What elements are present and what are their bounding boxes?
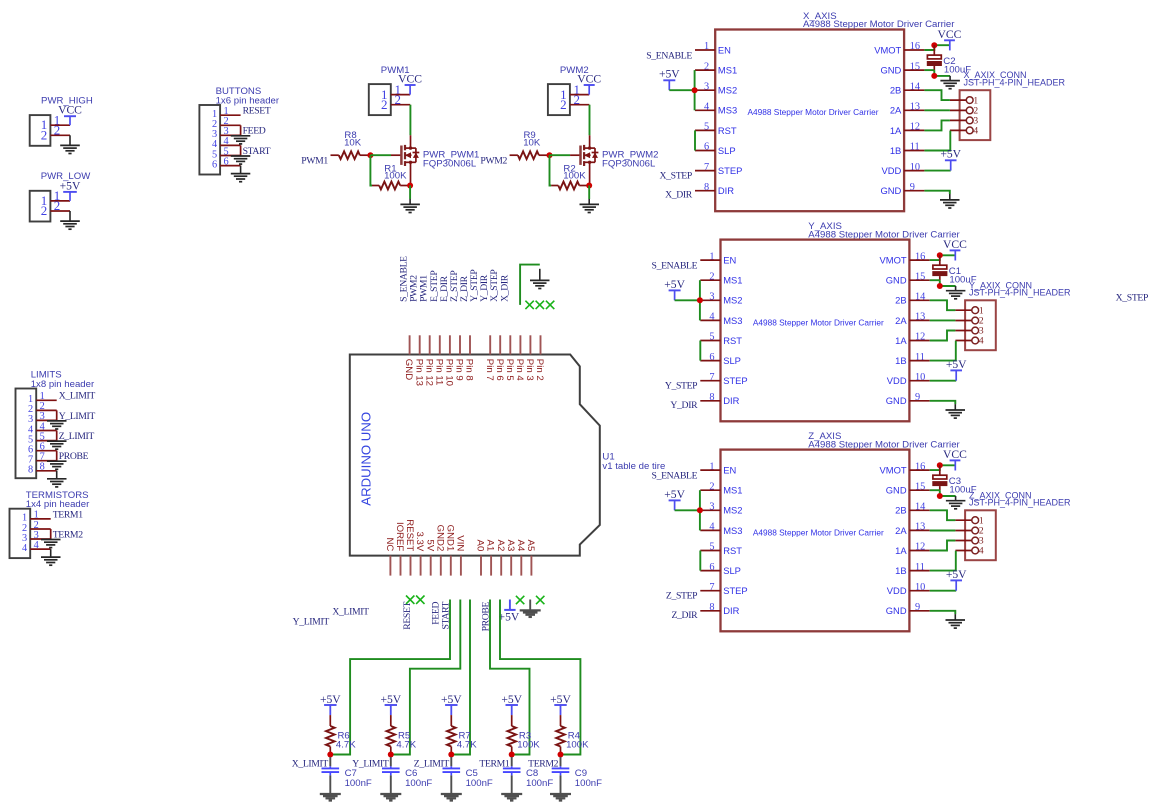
svg-text:1B: 1B [890, 145, 901, 156]
svg-text:JST-PH_4-PIN_HEADER: JST-PH_4-PIN_HEADER [969, 498, 1071, 508]
Arduino pin GND1 (bottom) [444, 525, 455, 576]
svg-text:MS3: MS3 [723, 315, 742, 326]
power +5V [60, 179, 81, 201]
svg-text:3: 3 [979, 327, 984, 337]
ground [946, 410, 966, 418]
wire to ground [56, 471, 58, 478]
wire 1B to conn pin4 [930, 341, 956, 361]
svg-text:4.7K: 4.7K [336, 739, 356, 750]
pin 8 of LIMITS [28, 462, 57, 476]
svg-text:STEP: STEP [718, 165, 743, 176]
wire GND pin9 to ground [924, 191, 949, 194]
power +5V [664, 488, 685, 511]
svg-text:2: 2 [41, 203, 48, 218]
wire 2B to conn pin1 [930, 510, 956, 520]
svg-text:+5V: +5V [320, 693, 341, 706]
capacitor C3 100uF [932, 465, 976, 495]
pin 15 GND [880, 61, 924, 75]
pin 4 MS3 [700, 522, 742, 536]
pin 15 GND [886, 271, 930, 285]
svg-text:EN: EN [718, 44, 731, 55]
power +5V for TERM2 [550, 693, 571, 715]
pin 6 SLP [700, 352, 741, 366]
power +5V [940, 148, 961, 171]
junction cap gnd node [937, 493, 943, 499]
svg-text:SLP: SLP [718, 145, 736, 156]
svg-text:X_DIR: X_DIR [665, 190, 693, 201]
ground [41, 540, 61, 548]
ground [946, 291, 966, 299]
Arduino pin GND2 (bottom) [434, 525, 445, 576]
wire cap to ground [560, 775, 562, 793]
wire GND pin9 to ground [930, 401, 956, 404]
svg-text:+5V: +5V [60, 179, 81, 192]
svg-text:4: 4 [22, 543, 27, 554]
svg-text:A3: A3 [505, 540, 516, 552]
svg-text:STEP: STEP [723, 375, 748, 386]
ground [940, 81, 960, 89]
svg-text:2: 2 [381, 97, 388, 112]
pin 11 1B [895, 352, 930, 366]
wire 1B to conn pin4 [930, 551, 956, 571]
pin 7 of LIMITS [28, 452, 57, 466]
svg-text:MS2: MS2 [723, 505, 742, 516]
pin 1 of Z_AXIX_CONN [955, 516, 984, 526]
Arduino pin Pin 3 (top) [524, 335, 535, 380]
svg-text:VCC: VCC [398, 72, 422, 85]
pin 11 1B [890, 142, 925, 156]
svg-text:Pin 12: Pin 12 [423, 359, 434, 386]
capacitor C6 100nF [382, 757, 432, 789]
svg-text:GND: GND [880, 65, 901, 76]
pin 4 of TERMISTORS [22, 540, 51, 554]
Arduino U1 body [350, 355, 666, 556]
pin 3 of Y_AXIX_CONN [955, 327, 984, 337]
wire +5V to MS pins [675, 490, 700, 530]
svg-text:5V: 5V [424, 540, 435, 552]
wire VMOT to VCC [930, 465, 956, 470]
pin 14 2B [895, 292, 930, 306]
svg-text:Y_LIMIT: Y_LIMIT [293, 617, 330, 628]
ground [47, 421, 67, 429]
resistor R5 4.7K [387, 715, 417, 754]
svg-text:Y_DIR: Y_DIR [670, 400, 698, 411]
Arduino pin A5 (bottom) [525, 540, 536, 576]
svg-text:VCC: VCC [943, 238, 967, 251]
svg-text:+5V: +5V [940, 148, 961, 161]
svg-text:A1: A1 [485, 540, 496, 552]
ground [320, 794, 341, 801]
wire RST to SLP [699, 551, 701, 571]
Arduino pin IOREF (bottom) [394, 522, 405, 576]
pin 10 VDD [887, 372, 930, 386]
svg-text:VCC: VCC [58, 104, 82, 117]
svg-text:3: 3 [979, 537, 984, 547]
svg-text:A5: A5 [525, 540, 536, 552]
svg-text:VCC: VCC [943, 448, 967, 461]
pin 4 of BUTTONS [212, 136, 241, 150]
svg-text:Z_DIR: Z_DIR [671, 610, 698, 621]
ground [231, 136, 251, 144]
pin 4 MS3 [695, 102, 737, 116]
junction X_LIMIT [327, 752, 333, 758]
wire to ground [240, 145, 242, 155]
wire 2A to conn pin2 [930, 530, 956, 532]
svg-text:MS1: MS1 [723, 485, 742, 496]
Arduino pin Pin 13 (top) [413, 335, 424, 386]
pin 3 MS2 [700, 292, 742, 306]
pin 1 EN [700, 461, 736, 475]
svg-text:+5V: +5V [499, 611, 520, 624]
pin 6 of BUTTONS [212, 156, 241, 170]
svg-text:+5V: +5V [550, 693, 571, 706]
svg-text:S_ENABLE: S_ENABLE [646, 51, 692, 62]
wire +5V to MS pins [675, 280, 700, 320]
wire RST to SLP [694, 130, 696, 150]
connector X_AXIX_CONN JST-PH_4-PIN_HEADER [960, 70, 1066, 140]
svg-text:Y_STEP: Y_STEP [665, 381, 697, 392]
pin 3 of LIMITS [28, 411, 57, 425]
ground [530, 280, 550, 288]
pin 4 MS3 [700, 312, 742, 326]
svg-text:Pin 4: Pin 4 [514, 359, 525, 382]
Arduino pin A2 (bottom) [495, 540, 506, 576]
A4988 driver block Y_AXIS [721, 221, 961, 421]
ground [41, 557, 61, 565]
pin 9 GND [886, 392, 930, 406]
svg-text:IOREF: IOREF [394, 522, 405, 551]
svg-text:Pin 7: Pin 7 [484, 359, 495, 381]
junction TERM2 [558, 752, 564, 758]
pin 1 of LIMITS [28, 391, 57, 405]
svg-text:+5V: +5V [441, 693, 462, 706]
svg-text:RST: RST [723, 545, 742, 556]
pin 8 DIR [700, 392, 739, 406]
pin 6 of LIMITS [28, 442, 57, 456]
svg-text:1: 1 [979, 306, 984, 316]
svg-text:2B: 2B [895, 295, 906, 306]
svg-text:VDD: VDD [887, 375, 907, 386]
ground [520, 610, 541, 617]
A4988 driver block X_AXIS [715, 11, 955, 211]
wire to ground [56, 431, 58, 441]
wire 1A to conn pin3 [930, 331, 956, 341]
svg-text:GND1: GND1 [444, 525, 455, 552]
Arduino pin Pin 8 (top) [464, 335, 475, 380]
wire 2A to conn pin2 [930, 319, 956, 321]
Arduino pin Pin 10 (top) [444, 335, 455, 386]
connector PWR_HIGH [30, 95, 93, 146]
junction gate node PWM1 [367, 152, 373, 158]
svg-text:GND: GND [403, 359, 414, 380]
svg-text:MS1: MS1 [723, 275, 742, 286]
pin 1 of PWR_LOW [41, 188, 70, 208]
svg-text:2A: 2A [895, 525, 907, 536]
svg-text:2A: 2A [895, 315, 907, 326]
svg-text:2: 2 [560, 97, 567, 112]
wire to ground [50, 529, 52, 539]
svg-text:S_ENABLE: S_ENABLE [652, 261, 698, 272]
pin 1 EN [700, 251, 736, 265]
pin 2 MS1 [695, 61, 737, 75]
svg-text:GND: GND [886, 275, 907, 286]
pin 5 RST [700, 542, 742, 556]
wire to Z_LIMIT column [453, 600, 470, 755]
no-connect flag [536, 596, 544, 604]
wire to ground [56, 410, 58, 420]
junction Z_LIMIT [448, 752, 454, 758]
capacitor C2 100uF [927, 45, 971, 75]
pin 11 1B [895, 562, 930, 576]
svg-text:VDD: VDD [887, 585, 907, 596]
svg-text:1: 1 [979, 516, 984, 526]
svg-text:RST: RST [723, 335, 742, 346]
pin 16 VMOT [880, 461, 930, 475]
power +5V for Y_LIMIT [380, 693, 401, 715]
ground [47, 441, 67, 449]
svg-text:MS1: MS1 [718, 65, 737, 76]
pin 1 of X_AXIX_CONN [950, 96, 979, 106]
wire 2B to conn pin1 [924, 90, 950, 100]
wire to ground (top of arduino) [520, 265, 540, 305]
svg-text:JST-PH_4-PIN_HEADER: JST-PH_4-PIN_HEADER [964, 77, 1066, 87]
wire cap to ground [390, 775, 392, 793]
svg-text:PWM2: PWM2 [480, 155, 507, 166]
pin 7 STEP [700, 582, 747, 596]
svg-text:100nF: 100nF [466, 778, 493, 789]
power +5V (inverted) [499, 600, 520, 624]
svg-text:MS2: MS2 [718, 85, 737, 96]
Arduino pin A0 (bottom) [475, 540, 486, 576]
capacitor C9 100nF [552, 757, 602, 789]
ground [550, 794, 571, 801]
svg-text:Pin 13: Pin 13 [413, 359, 424, 386]
connector BUTTONS (BUTTONS) [199, 86, 279, 174]
svg-text:X_LIMIT: X_LIMIT [59, 391, 96, 402]
wire RST to SLP [699, 341, 701, 361]
svg-text:SLP: SLP [723, 565, 741, 576]
svg-text:2B: 2B [890, 85, 901, 96]
wire 1B to conn pin4 [924, 131, 950, 151]
junction MS2 node [697, 507, 703, 513]
svg-text:1B: 1B [895, 355, 906, 366]
ground [231, 156, 251, 164]
pin 2 of LIMITS [28, 401, 57, 415]
svg-text:1: 1 [973, 96, 978, 106]
svg-text:6: 6 [212, 159, 217, 170]
svg-text:1B: 1B [895, 565, 906, 576]
wire to ground (below arduino) [529, 600, 531, 610]
svg-text:100nF: 100nF [405, 778, 432, 789]
junction VMOT node [931, 42, 937, 48]
svg-text:2B: 2B [895, 505, 906, 516]
svg-text:Z_STEP: Z_STEP [666, 591, 697, 602]
pin 2 of PWM2 header [560, 92, 589, 112]
wire to Y_LIMIT column [393, 600, 461, 755]
ground [60, 221, 80, 229]
svg-text:100nF: 100nF [526, 778, 553, 789]
power VCC [577, 72, 601, 94]
wire VMOT to VCC [924, 45, 949, 50]
svg-text:100nF: 100nF [345, 778, 372, 789]
wire cap to ground [329, 775, 331, 793]
wire drain [409, 105, 411, 136]
resistor R6 4.7K [326, 715, 356, 754]
transistor Q1 FQP30N06L [391, 135, 479, 185]
wire START net to X_LIMIT column [332, 600, 450, 755]
svg-text:1A: 1A [895, 335, 907, 346]
pin 3 of BUTTONS [212, 126, 241, 140]
pin 5 RST [695, 122, 737, 136]
svg-text:FQP30N06L: FQP30N06L [602, 158, 656, 169]
pin 13 2A [895, 522, 930, 536]
connector TERMISTORS (TERMISTORS) [10, 490, 91, 558]
power +5V [946, 358, 967, 381]
capacitor C8 100nF [503, 757, 553, 789]
svg-text:TERM1: TERM1 [53, 509, 84, 520]
power VCC [58, 104, 82, 126]
svg-text:Pin 2: Pin 2 [534, 359, 545, 381]
wire GND pin15 to cap/ground [930, 280, 956, 286]
capacitor C1 100uF [932, 255, 976, 285]
svg-text:RESET: RESET [402, 601, 413, 629]
wire to ground [240, 166, 242, 173]
svg-text:100nF: 100nF [575, 778, 602, 789]
pin 6 SLP [700, 562, 741, 576]
pin 4 of X_AXIX_CONN [950, 127, 979, 137]
capacitor C7 100nF [322, 757, 372, 789]
svg-text:X_LIMIT: X_LIMIT [332, 606, 369, 617]
pin 1 of PWR_HIGH [41, 112, 70, 132]
wire to ground [56, 451, 58, 461]
connector Y_AXIX_CONN JST-PH_4-PIN_HEADER [965, 280, 1071, 350]
pin 5 RST [700, 332, 742, 346]
wire to ground [240, 125, 242, 135]
pin 15 GND [886, 481, 930, 495]
pin 1 of BUTTONS [212, 106, 241, 120]
wire cap to ground [511, 775, 513, 793]
svg-text:A4: A4 [515, 540, 526, 552]
junction source node [407, 183, 413, 189]
junction MS2 node [697, 297, 703, 303]
pin 3 MS2 [695, 81, 737, 95]
svg-text:EN: EN [723, 465, 736, 476]
svg-text:JST-PH_4-PIN_HEADER: JST-PH_4-PIN_HEADER [969, 288, 1071, 298]
svg-text:4: 4 [979, 337, 984, 347]
wire gate to R pulldown [550, 155, 552, 185]
pin 2 MS1 [700, 481, 742, 495]
power +5V [659, 68, 680, 91]
svg-text:DIR: DIR [723, 605, 739, 616]
pin 2 of Y_AXIX_CONN [955, 317, 984, 327]
svg-text:4: 4 [973, 127, 978, 137]
Arduino pin RESET (bottom) [404, 519, 415, 575]
pin 8 DIR [700, 602, 739, 616]
svg-text:Pin 5: Pin 5 [504, 359, 515, 381]
svg-text:2A: 2A [890, 105, 902, 116]
resistor R2 100K [551, 163, 589, 189]
ground [231, 174, 251, 182]
Arduino pin A3 (bottom) [505, 540, 516, 576]
svg-text:2: 2 [979, 527, 984, 537]
wire gate to R pulldown [370, 155, 372, 185]
pin 10 VDD [887, 582, 930, 596]
resistor R9 10K [510, 130, 550, 159]
ground [580, 204, 600, 212]
svg-text:4.7K: 4.7K [457, 739, 477, 750]
pin 2 of BUTTONS [212, 116, 241, 130]
pin 12 1A [895, 542, 930, 556]
wire source to ground [588, 186, 590, 200]
pin 12 1A [890, 122, 925, 136]
ground [400, 204, 420, 212]
Arduino pin Pin 12 (top) [423, 335, 434, 386]
transistor Q2 FQP30N06L [570, 135, 658, 185]
junction VMOT node [937, 462, 943, 468]
no-connect flag [416, 596, 424, 604]
svg-text:1A: 1A [895, 545, 907, 556]
pin 14 2B [890, 81, 925, 95]
pin 13 2A [890, 102, 925, 116]
svg-text:GND: GND [886, 605, 907, 616]
ground [60, 145, 80, 153]
wire VDD to +5V [930, 380, 957, 382]
svg-text:4: 4 [979, 547, 984, 557]
svg-text:1x8 pin header: 1x8 pin header [31, 379, 95, 390]
svg-text:EN: EN [723, 255, 736, 266]
svg-text:Pin 6: Pin 6 [494, 359, 505, 381]
svg-text:VIN: VIN [455, 535, 466, 551]
power VCC [943, 238, 967, 260]
svg-text:+5V: +5V [380, 693, 401, 706]
svg-text:100K: 100K [517, 739, 540, 750]
pin 3 of Z_AXIX_CONN [955, 537, 984, 547]
ground [380, 794, 401, 801]
Arduino pin NC (bottom) [384, 537, 395, 575]
pin 2 of PWR_HIGH [41, 123, 70, 143]
pin 1 of PWM1 header [381, 82, 410, 102]
svg-text:A4988 Stepper Motor Driver Car: A4988 Stepper Motor Driver Carrier [753, 527, 884, 537]
pin 2 MS1 [700, 271, 742, 285]
svg-text:GND: GND [880, 185, 901, 196]
svg-text:+5V: +5V [946, 568, 967, 581]
pin 5 of LIMITS [28, 431, 57, 445]
power +5V for X_LIMIT [320, 693, 341, 715]
svg-text:VMOT: VMOT [880, 255, 907, 266]
svg-text:1A: 1A [890, 125, 902, 136]
junction source node [586, 183, 592, 189]
svg-text:NC: NC [384, 537, 395, 551]
wire junction to gate [370, 154, 391, 156]
pin 13 2A [895, 312, 930, 326]
svg-text:100K: 100K [566, 739, 589, 750]
wire 1A to conn pin3 [930, 541, 956, 551]
Arduino pin Pin 11 (top) [433, 335, 444, 385]
svg-text:VCC: VCC [577, 72, 601, 85]
svg-text:A4988 Stepper Motor Driver Car: A4988 Stepper Motor Driver Carrier [748, 107, 879, 117]
junction MS2 node [692, 87, 698, 93]
wire 2A to conn pin2 [924, 109, 950, 111]
svg-text:10K: 10K [344, 138, 362, 149]
pin 1 of PWM2 header [560, 82, 589, 102]
Arduino pin Pin 2 (top) [534, 335, 545, 380]
pin 1 of TERMISTORS [22, 510, 51, 524]
svg-text:2: 2 [973, 107, 978, 117]
svg-text:RESET: RESET [404, 519, 415, 551]
wire junction to gate [550, 154, 571, 156]
svg-text:MS3: MS3 [718, 105, 737, 116]
pin 14 2B [895, 502, 930, 516]
